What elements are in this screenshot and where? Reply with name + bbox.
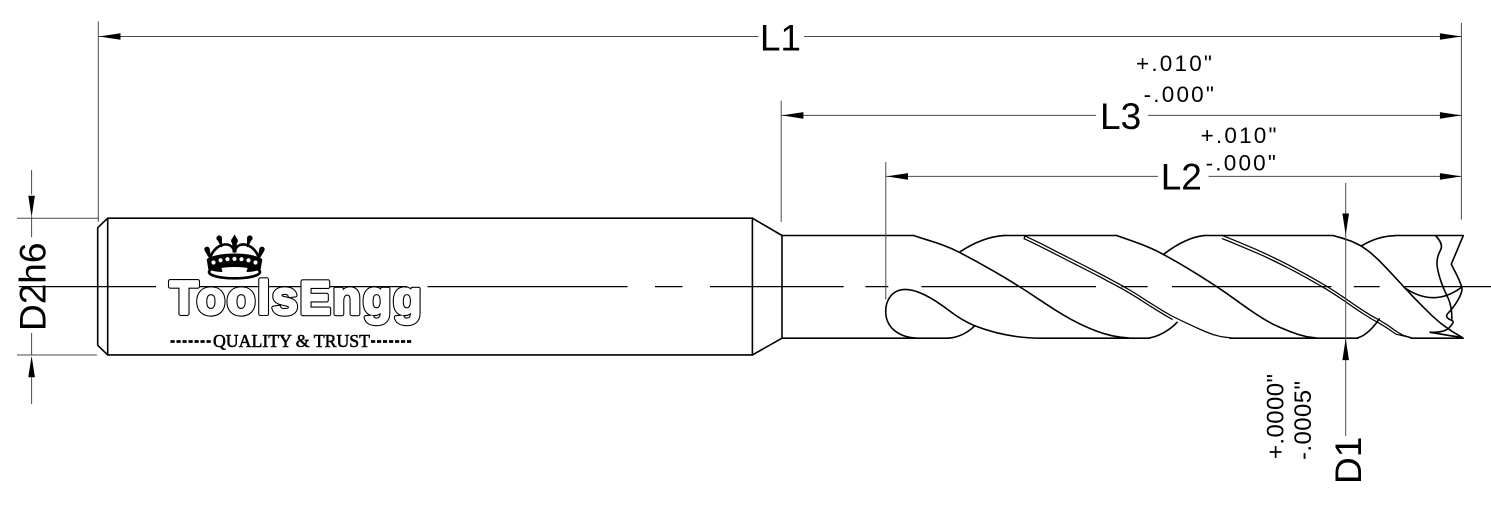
crown arches — [210, 244, 260, 259]
D1 top arrowhead — [1342, 214, 1349, 236]
crown side skirt fills — [209, 265, 222, 272]
logo crown — [205, 235, 264, 278]
flute body top edge segments — [782, 235, 1463, 237]
end gash smile curve — [1404, 287, 1462, 298]
L1 dimension line — [98, 36, 1461, 38]
bottom cusp curve B1 — [1149, 322, 1177, 338]
cutting-edge land pair 2 (upper line) — [1222, 235, 1411, 337]
svg-text:+.010": +.010" — [1201, 123, 1279, 148]
crown bottom rim ellipse — [209, 266, 260, 279]
taper shank-to-neck — [752, 218, 782, 355]
flute runout teardrop loop — [886, 289, 1042, 338]
svg-text:D1: D1 — [1328, 437, 1369, 484]
tagline dashes left — [171, 340, 213, 343]
crown pearl band (dark strip) — [208, 254, 262, 269]
extension line right (tool end) — [1460, 23, 1462, 220]
flute body bottom edge segments — [782, 337, 1463, 339]
flute crest arc D — [1361, 236, 1395, 246]
crown outer horns — [206, 250, 211, 259]
D2h6 bottom arrowhead — [28, 356, 35, 378]
svg-text:-.000": -.000" — [1206, 151, 1278, 176]
L1 right arrowhead — [1440, 33, 1462, 40]
crown inner spikes — [218, 239, 221, 247]
flute crest arc A — [959, 235, 1004, 252]
svg-text:-.0005": -.0005" — [1290, 381, 1317, 460]
D2h6 top arrowhead — [28, 196, 35, 218]
svg-text:+.0000": +.0000" — [1263, 374, 1290, 459]
tagline dashes right — [371, 340, 413, 343]
L2 right arrowhead — [1440, 173, 1462, 180]
svg-text:D2h6: D2h6 — [13, 243, 54, 331]
svg-text:ToolsEngg: ToolsEngg — [170, 271, 424, 324]
svg-text:L3: L3 — [1100, 96, 1141, 137]
D2h6 extension lines — [17, 218, 98, 355]
helical flute line A — [913, 235, 1129, 338]
extension line left (shank end) — [97, 21, 99, 221]
cutting-edge land pair 2 (lower line) — [1222, 239, 1411, 338]
flute crest arc C — [1163, 235, 1205, 254]
svg-text:-.000": -.000" — [1144, 82, 1216, 107]
extension line neck (L3) — [780, 101, 782, 222]
L2 dimension line — [886, 175, 1462, 177]
L3 right arrowhead — [1440, 112, 1462, 119]
shank left chamfer — [98, 218, 108, 355]
D2h6 dimension line — [31, 170, 33, 404]
L3 left arrowhead — [782, 112, 804, 119]
extension line flute start (L2) — [885, 162, 887, 299]
teardrop inner rising curve — [949, 326, 975, 338]
shank outline — [108, 218, 753, 355]
D1 bottom arrowhead — [1342, 339, 1349, 361]
svg-text:QUALITY & TRUST: QUALITY & TRUST — [213, 331, 370, 351]
svg-text:L2: L2 — [1161, 157, 1202, 198]
cutting-edge land pair 1 (lower line) — [1024, 236, 1172, 319]
helical flute line D — [1333, 236, 1463, 338]
end tooth wavy edge — [1436, 236, 1452, 321]
helical flute line C — [1116, 235, 1316, 338]
L3 dimension line — [781, 114, 1461, 116]
bottom cusp curve B2 — [1358, 319, 1379, 338]
crown centre finial — [233, 242, 237, 253]
break line (jagged end) — [1430, 236, 1464, 338]
svg-text:L1: L1 — [760, 18, 801, 59]
svg-text:+.010": +.010" — [1136, 51, 1214, 76]
D1 dimension line — [1345, 183, 1347, 436]
L2 left arrowhead — [887, 173, 909, 180]
cutting-edge land pair 1 (upper line) — [1024, 235, 1230, 337]
centerline (axis) — [19, 286, 1491, 288]
L1 left arrowhead — [99, 33, 121, 40]
neck junction line — [781, 236, 783, 339]
